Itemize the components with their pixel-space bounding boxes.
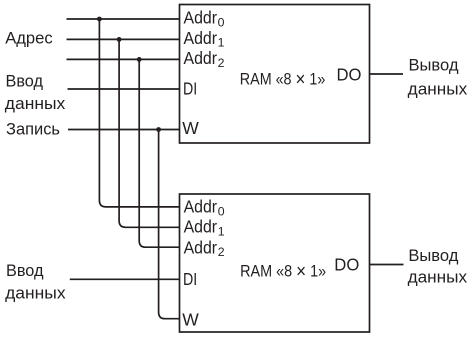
svg-text:Ввод: Ввод: [6, 71, 44, 90]
svg-text:1: 1: [218, 224, 225, 238]
svg-text:данных: данных: [408, 268, 468, 287]
svg-text:W: W: [182, 118, 199, 138]
svg-text:Addr: Addr: [184, 197, 218, 217]
svg-text:RAM «8 × 1»: RAM «8 × 1»: [240, 69, 325, 91]
svg-text:Addr: Addr: [184, 48, 218, 68]
svg-text:Вывод: Вывод: [408, 246, 458, 265]
svg-text:Addr: Addr: [184, 217, 218, 237]
svg-text:W: W: [182, 309, 199, 329]
svg-text:Адрес: Адрес: [5, 29, 53, 48]
svg-text:Вывод: Вывод: [409, 55, 459, 74]
svg-text:Ввод: Ввод: [6, 261, 44, 280]
svg-text:DI: DI: [183, 269, 197, 289]
svg-text:Addr: Addr: [184, 237, 218, 257]
svg-text:Запись: Запись: [6, 119, 60, 138]
svg-text:DO: DO: [337, 65, 362, 85]
svg-text:Addr: Addr: [184, 28, 218, 48]
svg-text:2: 2: [218, 245, 225, 259]
svg-text:Addr: Addr: [184, 8, 218, 28]
svg-text:данных: данных: [5, 94, 66, 113]
svg-text:DI: DI: [183, 79, 197, 99]
svg-text:данных: данных: [5, 283, 66, 302]
svg-text:1: 1: [218, 36, 225, 50]
svg-text:RAM «8 × 1»: RAM «8 × 1»: [240, 261, 326, 283]
svg-text:0: 0: [218, 204, 225, 218]
svg-text:2: 2: [218, 56, 225, 70]
svg-text:0: 0: [218, 16, 225, 30]
svg-text:данных: данных: [408, 79, 468, 98]
svg-text:DO: DO: [334, 255, 359, 275]
